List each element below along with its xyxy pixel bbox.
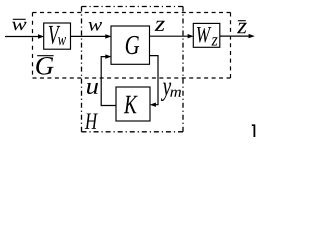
text fragment "]" bottom right: [252, 124, 256, 137]
block G: [111, 26, 150, 64]
label w-bar overline: [13, 18, 26, 20]
label z: [155, 21, 165, 31]
wire G to W_z: [150, 35, 189, 37]
dash-dot box H: left edge: [81, 7, 83, 132]
arrowhead into K (y_m): [150, 103, 156, 107]
arrowhead into G (u): [105, 54, 111, 58]
dashed box G-bar: bottom edge: [33, 77, 231, 79]
arrowhead into V_w: [38, 34, 44, 38]
dash-dot box H (closed loop of G and K): top edge: [82, 6, 184, 8]
dash-dot box H: right edge: [182, 7, 184, 132]
wire V_w to G: [71, 35, 107, 37]
label H: [85, 114, 98, 129]
arrowhead into G (w): [105, 34, 111, 38]
wire u: K left edge up to G left edge: [101, 57, 116, 106]
wire y_m: G right edge down to K right edge: [150, 56, 159, 105]
dashed box G-bar: right edge: [230, 13, 232, 79]
label w-bar letter: [12, 22, 27, 30]
wire W_z output z-bar: [220, 35, 250, 37]
label G-bar letter: [36, 57, 53, 75]
dashed box G-bar: left edge: [32, 13, 34, 79]
dashed box G-bar (weighted open-loop plant): top edge: [33, 12, 231, 14]
label z-bar letter: [237, 23, 247, 33]
label z-bar overline: [238, 20, 246, 22]
label y_m: [161, 83, 171, 101]
label u: [87, 83, 98, 94]
arrowhead output z-bar: [249, 34, 255, 38]
arrowhead into W_z: [188, 34, 194, 38]
label G-bar overline: [37, 55, 53, 57]
block V_w: [44, 23, 71, 49]
label w: [88, 22, 102, 31]
dash-dot box H: bottom edge: [82, 131, 184, 133]
block W_z: [193, 23, 220, 47]
block K: [116, 87, 150, 121]
wire w-bar input: [5, 36, 39, 38]
